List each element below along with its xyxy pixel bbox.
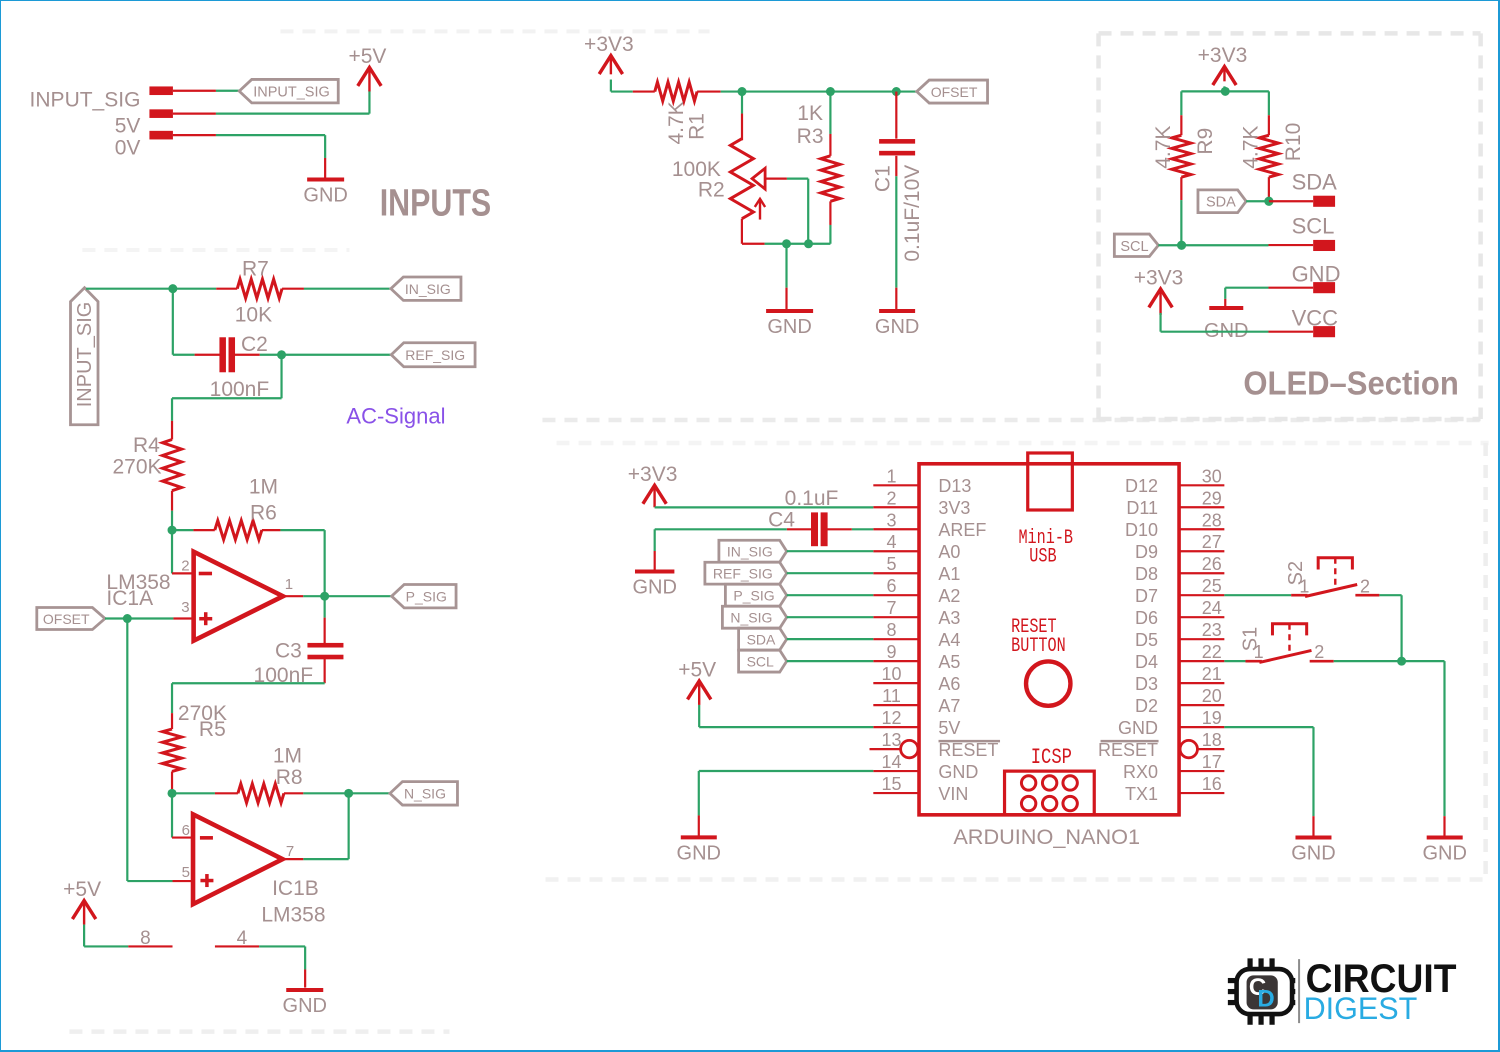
svg-text:30: 30 [1202,466,1222,486]
svg-text:R9: R9 [1194,128,1217,155]
svg-text:12: 12 [882,708,902,728]
svg-text:AREF: AREF [938,520,986,540]
svg-text:GND: GND [677,842,721,864]
svg-text:4: 4 [887,532,897,552]
svg-text:GND: GND [303,184,347,206]
svg-text:13: 13 [882,730,902,750]
svg-text:A4: A4 [938,630,960,650]
svg-text:P_SIG: P_SIG [733,588,774,604]
svg-text:BUTTON: BUTTON [1011,635,1066,658]
svg-text:1: 1 [887,466,897,486]
svg-text:21: 21 [1202,664,1222,684]
svg-text:0.1uF: 0.1uF [785,487,839,510]
svg-text:INPUTS: INPUTS [380,182,491,224]
svg-text:1: 1 [285,576,293,593]
svg-text:GND: GND [875,316,919,338]
svg-text:D7: D7 [1135,586,1158,606]
svg-text:8: 8 [887,620,897,640]
svg-text:USB: USB [1029,546,1056,569]
svg-text:+5V: +5V [348,45,386,68]
svg-text:18: 18 [1202,730,1222,750]
svg-text:23: 23 [1202,620,1222,640]
svg-text:GND: GND [632,577,676,599]
svg-text:RESET: RESET [938,740,998,760]
svg-text:SDA: SDA [1206,195,1236,211]
svg-text:R10: R10 [1282,123,1305,162]
svg-text:IN_SIG: IN_SIG [727,544,773,560]
svg-text:D5: D5 [1135,630,1158,650]
svg-text:INPUT_SIG: INPUT_SIG [30,88,141,111]
svg-text:100nF: 100nF [254,664,314,687]
svg-text:GND: GND [1291,842,1335,864]
svg-text:6: 6 [887,576,897,596]
svg-text:4.7K: 4.7K [1239,126,1262,169]
svg-text:A1: A1 [938,564,960,584]
svg-text:A5: A5 [938,652,960,672]
svg-text:28: 28 [1202,510,1222,530]
svg-text:10: 10 [882,664,902,684]
svg-text:R7: R7 [242,257,269,280]
svg-text:15: 15 [882,774,902,794]
svg-text:+3V3: +3V3 [584,33,634,56]
svg-text:0V: 0V [115,136,141,159]
svg-text:0.1uF/10V: 0.1uF/10V [901,165,924,262]
svg-text:A0: A0 [938,542,960,562]
svg-text:R1: R1 [685,113,708,140]
svg-text:6: 6 [182,822,190,839]
svg-text:R8: R8 [276,766,303,789]
svg-text:25: 25 [1202,576,1222,596]
svg-text:22: 22 [1202,642,1222,662]
svg-text:5: 5 [182,864,190,881]
svg-text:1: 1 [1299,576,1309,596]
svg-text:C4: C4 [768,509,795,532]
svg-text:R4: R4 [133,434,160,457]
svg-text:D10: D10 [1125,520,1158,540]
svg-text:A3: A3 [938,608,960,628]
svg-text:SCL: SCL [1292,213,1335,238]
svg-text:N_SIG: N_SIG [404,786,446,802]
svg-text:ICSP: ICSP [1031,745,1072,770]
svg-text:29: 29 [1202,488,1222,508]
svg-text:1M: 1M [273,745,302,768]
svg-text:IC1B: IC1B [272,877,319,900]
svg-text:N_SIG: N_SIG [730,610,772,626]
svg-text:D11: D11 [1126,498,1158,518]
svg-text:27: 27 [1202,532,1222,552]
svg-text:R6: R6 [250,501,277,524]
svg-text:C3: C3 [275,640,302,663]
svg-text:19: 19 [1202,708,1222,728]
svg-text:5V: 5V [115,114,141,137]
svg-text:RESET: RESET [1098,740,1158,760]
svg-text:D12: D12 [1125,476,1158,496]
svg-text:VIN: VIN [938,784,968,804]
svg-text:1: 1 [1254,642,1264,662]
svg-text:SCL: SCL [747,654,774,670]
svg-text:GND: GND [1118,718,1158,738]
svg-text:26: 26 [1202,554,1222,574]
svg-text:GND: GND [283,995,327,1017]
svg-text:3V3: 3V3 [938,498,970,518]
svg-text:1K: 1K [797,102,823,125]
svg-text:AC-Signal: AC-Signal [346,403,445,428]
svg-text:D4: D4 [1135,652,1158,672]
svg-text:4.7K: 4.7K [665,101,688,144]
svg-text:2: 2 [1314,642,1324,662]
svg-text:20: 20 [1202,686,1222,706]
svg-text:D13: D13 [938,476,971,496]
svg-text:C1: C1 [872,165,895,192]
svg-text:5V: 5V [938,718,960,738]
svg-text:14: 14 [882,752,902,772]
svg-text:R3: R3 [797,125,824,148]
svg-text:D8: D8 [1135,564,1158,584]
svg-text:SCL: SCL [1120,239,1148,255]
svg-text:OFSET: OFSET [43,611,90,627]
svg-text:7: 7 [286,843,294,860]
svg-text:+3V3: +3V3 [1198,44,1248,67]
svg-text:IN_SIG: IN_SIG [405,281,451,297]
svg-text:IC1A: IC1A [106,587,153,610]
svg-text:C2: C2 [241,333,268,356]
svg-text:+3V3: +3V3 [1134,266,1184,289]
svg-text:8: 8 [140,928,151,949]
svg-text:+5V: +5V [678,658,716,681]
svg-text:R2: R2 [698,179,725,202]
svg-text:D: D [1257,986,1274,1013]
svg-text:INPUT_SIG: INPUT_SIG [253,85,330,101]
svg-text:4.7K: 4.7K [1152,126,1175,169]
svg-text:LM358: LM358 [261,904,325,927]
svg-text:D3: D3 [1135,674,1158,694]
svg-text:GND: GND [1292,261,1341,286]
svg-text:3: 3 [181,599,189,616]
svg-text:3: 3 [887,510,897,530]
svg-text:GND: GND [1422,842,1466,864]
svg-text:+5V: +5V [63,878,101,901]
svg-text:P_SIG: P_SIG [406,589,447,605]
svg-text:OFSET: OFSET [931,84,978,100]
svg-text:D6: D6 [1135,608,1158,628]
svg-text:REF_SIG: REF_SIG [713,566,773,582]
svg-text:GND: GND [767,316,811,338]
svg-text:A7: A7 [938,696,960,716]
svg-text:10K: 10K [235,303,272,326]
svg-text:1M: 1M [249,476,278,499]
svg-text:R5: R5 [199,718,226,741]
svg-text:D9: D9 [1135,542,1158,562]
svg-text:A2: A2 [938,586,960,606]
svg-text:DIGEST: DIGEST [1304,991,1418,1027]
svg-text:RX0: RX0 [1123,762,1158,782]
svg-text:REF_SIG: REF_SIG [405,347,465,363]
svg-text:TX1: TX1 [1125,784,1158,804]
svg-text:24: 24 [1202,598,1222,618]
svg-text:OLED–Section: OLED–Section [1243,365,1458,402]
svg-text:2: 2 [1360,576,1370,596]
svg-text:+3V3: +3V3 [628,463,678,486]
svg-text:ARDUINO_NANO1: ARDUINO_NANO1 [953,824,1140,849]
svg-text:11: 11 [882,686,901,706]
svg-text:9: 9 [887,642,897,662]
svg-text:SDA: SDA [1292,169,1338,194]
svg-text:VCC: VCC [1292,305,1339,330]
svg-text:GND: GND [938,762,978,782]
svg-text:16: 16 [1202,774,1222,794]
svg-text:270K: 270K [112,456,161,479]
svg-text:2: 2 [181,558,189,575]
svg-text:A6: A6 [938,674,960,694]
svg-text:5: 5 [887,554,897,574]
svg-text:4: 4 [237,928,248,949]
svg-text:17: 17 [1202,752,1222,772]
svg-text:7: 7 [887,598,897,618]
svg-text:2: 2 [887,488,897,508]
svg-text:D2: D2 [1135,696,1158,716]
svg-text:SDA: SDA [747,632,776,648]
svg-text:INPUT_SIG: INPUT_SIG [74,302,96,408]
